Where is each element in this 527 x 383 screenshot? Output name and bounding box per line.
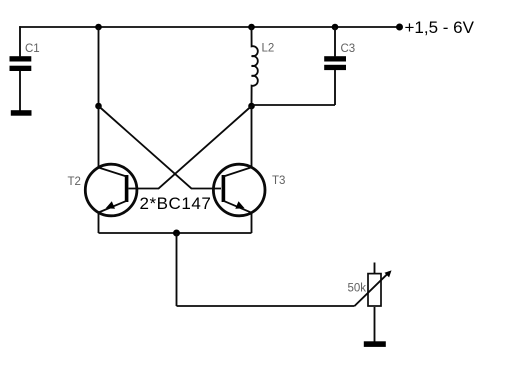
wire: left node cross-coupled to T3 base (99, 106, 222, 189)
ground (below C1) (11, 110, 32, 116)
svg-text:C3: C3 (341, 43, 356, 55)
node: junction dot rail / left branch (95, 24, 102, 31)
wire: C3 bottom plate down (334, 70, 336, 105)
transistor T3 (213, 164, 265, 216)
svg-text:C1: C1 (25, 43, 40, 55)
svg-text:T3: T3 (272, 175, 285, 187)
svg-text:+1,5 - 6V: +1,5 - 6V (405, 18, 475, 37)
svg-text:50k: 50k (348, 283, 367, 295)
wire: L2 node down to T3 collector (251, 106, 253, 167)
node: junction dot rail / L2 top (248, 24, 255, 31)
wire: C3 bottom across to L2 node (252, 104, 336, 106)
wire: rail junction down to left cross node (98, 27, 100, 106)
node: junction dot at L2 bottom (248, 103, 255, 110)
transistor T2 (85, 164, 137, 216)
inductor L2 (252, 27, 258, 106)
node: junction dot rail / C3 top (332, 24, 339, 31)
wire: L2 node cross-coupled to T2 base (129, 106, 252, 189)
wire: rail left end down to C1 top plate (19, 26, 21, 56)
node: emitter rail junction dot (173, 230, 180, 237)
capacitor C3 (324, 56, 346, 70)
node: left cross junction dot (95, 103, 102, 110)
svg-text:2*BC147: 2*BC147 (140, 194, 212, 213)
potentiometer 50k (355, 263, 392, 342)
wire: bottom emitter rail (99, 232, 252, 234)
wire: across to potentiometer wiper (177, 305, 355, 307)
wire: T3 emitter down to emitter rail (251, 213, 253, 233)
wire: C1 bottom plate to ground (19, 71, 21, 111)
svg-text:L2: L2 (262, 43, 275, 55)
wire: T2 emitter down to emitter rail (98, 213, 100, 234)
wire: top supply rail (19, 26, 399, 28)
wire: rail junction down to C3 top plate (334, 27, 336, 56)
wire: emitter junction down (176, 233, 178, 306)
wire: left node down to T2 collector (98, 106, 100, 168)
capacitor C1 (10, 56, 32, 71)
node: supply terminal dot (396, 24, 403, 31)
ground (below potentiometer) (364, 341, 386, 347)
svg-text:T2: T2 (68, 176, 81, 188)
